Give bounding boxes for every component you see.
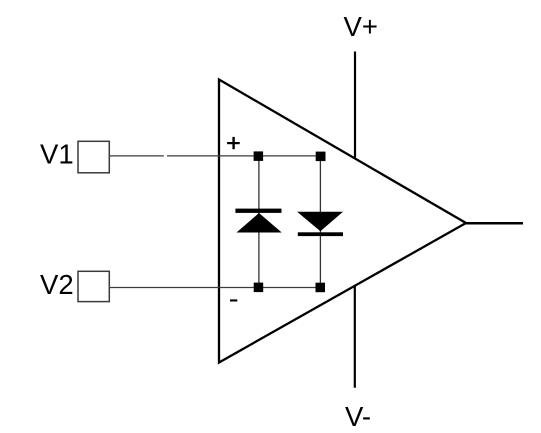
- svg-text:V+: V+: [344, 11, 378, 42]
- svg-text:V1: V1: [40, 139, 74, 170]
- svg-text:V2: V2: [40, 269, 74, 300]
- svg-text:V-: V-: [345, 401, 371, 432]
